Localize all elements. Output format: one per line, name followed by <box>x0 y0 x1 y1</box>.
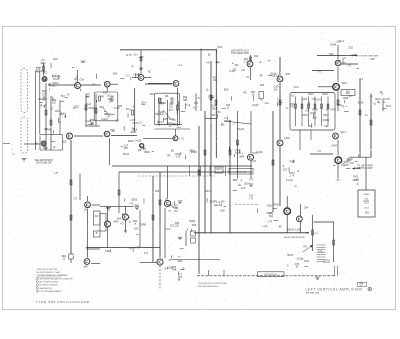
svg-text:R.11: R.11 <box>294 86 300 89</box>
svg-text:--6-: --6- <box>258 61 262 64</box>
svg-text:RQ: RQ <box>235 64 239 67</box>
svg-text:R-: R- <box>216 117 219 120</box>
svg-text:+C+: +C+ <box>133 53 138 56</box>
svg-text:INCORPORATED 1 OHM: INCORPORATED 1 OHM <box>37 271 60 274</box>
svg-text:2N2207: 2N2207 <box>341 165 350 167</box>
svg-text:J414: J414 <box>364 208 370 210</box>
svg-text:-Q32: -Q32 <box>310 112 316 115</box>
svg-text:CK: CK <box>116 120 120 123</box>
svg-text:AC POWER SOURCE: AC POWER SOURCE <box>40 281 60 284</box>
svg-text:VERT: VERT <box>364 194 370 196</box>
svg-text:K+D4: K+D4 <box>102 118 109 121</box>
svg-text:6D: 6D <box>171 149 174 152</box>
svg-text:5KC3: 5KC3 <box>287 254 294 257</box>
svg-text:KCQ: KCQ <box>133 122 138 125</box>
svg-text:D--: D-- <box>67 93 71 96</box>
svg-text:+1.2: +1.2 <box>125 76 130 78</box>
svg-text:K43C: K43C <box>257 151 263 154</box>
svg-text:+150: +150 <box>217 47 223 49</box>
svg-text:KR: KR <box>212 114 216 117</box>
svg-text:7.R: 7.R <box>311 98 315 101</box>
svg-text:1K: 1K <box>377 102 380 104</box>
svg-text:2+K: 2+K <box>265 102 270 105</box>
svg-text:--: -- <box>139 235 141 238</box>
svg-text:--Q: --Q <box>372 102 376 105</box>
svg-text:C404: C404 <box>331 146 337 148</box>
svg-text:SEE PARTS LIST: SEE PARTS LIST <box>231 50 250 53</box>
svg-text:5+Q3: 5+Q3 <box>135 140 142 143</box>
svg-text:Q.: Q. <box>237 143 240 146</box>
svg-text:NOTE BELOW: NOTE BELOW <box>36 163 52 165</box>
svg-text:GAIN SWITCH: GAIN SWITCH <box>40 287 53 290</box>
svg-text:2DC2: 2DC2 <box>128 140 135 143</box>
svg-text:C4Q: C4Q <box>267 204 272 207</box>
svg-text:C74: C74 <box>268 222 273 224</box>
svg-text:TRIG PICKOFF: TRIG PICKOFF <box>264 274 277 276</box>
svg-text:1K: 1K <box>134 224 137 226</box>
svg-text:++Q: ++Q <box>262 225 267 228</box>
svg-text:TO RIGHT VERT AMP: TO RIGHT VERT AMP <box>358 54 379 57</box>
svg-text:R66: R66 <box>192 225 197 227</box>
svg-text:D-QC: D-QC <box>49 84 55 87</box>
svg-text:206D: 206D <box>133 204 139 207</box>
svg-text:6K.: 6K. <box>129 247 133 250</box>
svg-text:.1.: .1. <box>276 98 279 101</box>
svg-text:5D2R: 5D2R <box>267 212 273 215</box>
svg-text:K.7C: K.7C <box>134 246 140 249</box>
svg-text:C90D: C90D <box>144 151 150 154</box>
svg-text:+557: +557 <box>163 118 169 121</box>
svg-text:PICKOFF: PICKOFF <box>323 262 330 264</box>
svg-text:C67: C67 <box>174 211 179 213</box>
svg-text:C+1: C+1 <box>211 104 216 107</box>
svg-text:KQ+: KQ+ <box>126 108 131 111</box>
svg-text:9D..: 9D.. <box>165 95 170 98</box>
svg-text:C88: C88 <box>318 252 323 254</box>
svg-text:R.02: R.02 <box>230 70 236 73</box>
svg-text:4.: 4. <box>174 269 176 272</box>
svg-text:+2-: +2- <box>161 113 165 116</box>
svg-text:6KR: 6KR <box>169 118 174 121</box>
svg-text:-Q.: -Q. <box>131 65 135 68</box>
svg-text:KDR8: KDR8 <box>140 224 147 227</box>
svg-text:+.: +. <box>326 125 328 128</box>
svg-text:Q.-+: Q.-+ <box>342 105 347 108</box>
svg-text:QQK: QQK <box>302 98 308 101</box>
svg-text:4C: 4C <box>50 107 53 110</box>
svg-text:D.: D. <box>60 113 63 116</box>
svg-text:C52: C52 <box>249 196 254 198</box>
svg-text:-5C: -5C <box>291 95 295 98</box>
svg-text:1K: 1K <box>109 102 112 104</box>
svg-text:0QQ1: 0QQ1 <box>189 220 196 223</box>
svg-text:6C: 6C <box>92 84 95 87</box>
svg-text:KC: KC <box>148 71 152 74</box>
svg-text:QR9.: QR9. <box>81 61 87 64</box>
svg-text:D85: D85 <box>113 74 118 76</box>
svg-text:2C3: 2C3 <box>170 225 175 228</box>
svg-text:+1.2: +1.2 <box>178 65 183 67</box>
svg-text:C98: C98 <box>155 191 160 193</box>
svg-text:T402: T402 <box>328 54 334 56</box>
svg-text:7+C6: 7+C6 <box>114 107 120 110</box>
svg-text:CD+: CD+ <box>80 78 85 81</box>
svg-text:R97: R97 <box>124 148 129 150</box>
svg-text:WITH SWP TRIG AND 4TH CHAN OFF: WITH SWP TRIG AND 4TH CHAN OFF <box>40 278 74 281</box>
svg-text:-C: -C <box>343 57 346 60</box>
svg-text:TRACE SEP: TRACE SEP <box>236 170 247 173</box>
svg-text:VOLTAGE READINGS OBTAINED: VOLTAGE READINGS OBTAINED <box>37 274 68 277</box>
svg-text:0-: 0- <box>169 259 171 262</box>
svg-text:6+C+: 6+C+ <box>52 74 58 77</box>
svg-text:C-: C- <box>106 207 109 210</box>
svg-text:DD2.: DD2. <box>74 106 80 109</box>
svg-text:10K: 10K <box>213 80 218 82</box>
svg-text:QRQ: QRQ <box>352 54 358 57</box>
svg-text:4726: 4726 <box>273 204 279 207</box>
svg-text:DC5: DC5 <box>43 71 48 74</box>
svg-text:Q84: Q84 <box>74 79 79 81</box>
svg-text:SEL: SEL <box>269 216 274 218</box>
svg-text:K28: K28 <box>220 210 225 213</box>
svg-text:-D3: -D3 <box>221 124 226 127</box>
svg-text:FOR SEMICOND: FOR SEMICOND <box>231 53 249 55</box>
svg-text:1K: 1K <box>252 95 255 97</box>
svg-text:-150: -150 <box>273 90 278 92</box>
svg-text:RK: RK <box>167 155 171 158</box>
svg-text:++K: ++K <box>205 61 210 64</box>
svg-text:.8DK: .8DK <box>232 179 238 182</box>
svg-text:C84: C84 <box>304 208 309 210</box>
svg-text:Q--: Q-- <box>182 268 186 271</box>
svg-text:K3+K: K3+K <box>133 73 139 76</box>
svg-text:DELAY LINE: DELAY LINE <box>287 229 301 232</box>
svg-text:Q-.: Q-. <box>206 89 210 92</box>
svg-text:R372: R372 <box>205 191 211 193</box>
svg-text:.1CD: .1CD <box>348 47 354 50</box>
svg-text:RKC+: RKC+ <box>157 121 164 124</box>
svg-text:76KR: 76KR <box>289 161 295 164</box>
svg-text:NO INPUT SIGNALS: NO INPUT SIGNALS <box>40 284 58 287</box>
svg-text:K+4: K+4 <box>340 40 345 43</box>
svg-text:DELAY LINE NETWORK: DELAY LINE NETWORK <box>284 236 306 239</box>
svg-text:BLW 1000 SEE NOTE 4: BLW 1000 SEE NOTE 4 <box>198 286 218 288</box>
svg-text:+7.5: +7.5 <box>179 139 184 141</box>
svg-text:-98Q: -98Q <box>40 62 45 65</box>
svg-text:0C: 0C <box>238 184 241 187</box>
svg-text:5K92: 5K92 <box>358 101 364 104</box>
svg-text:DRD: DRD <box>353 179 358 182</box>
svg-text:R401: R401 <box>308 94 314 96</box>
svg-text:8DK: 8DK <box>240 155 245 158</box>
svg-text:R.75: R.75 <box>127 54 133 57</box>
svg-text:.KCR: .KCR <box>384 98 390 101</box>
svg-text:C401: C401 <box>315 100 321 102</box>
svg-text:D7-9: D7-9 <box>386 105 392 108</box>
svg-text:Q5K2: Q5K2 <box>131 199 138 202</box>
svg-text:LEFT VERTICAL AMPLIFIER: LEFT VERTICAL AMPLIFIER <box>306 287 363 291</box>
svg-text:TYPE 556 OSCILLOSCOPE: TYPE 556 OSCILLOSCOPE <box>36 300 90 304</box>
svg-text:.D: .D <box>128 221 131 224</box>
svg-text:R370: R370 <box>216 169 222 171</box>
svg-text:QQ: QQ <box>62 140 66 143</box>
svg-text:C2C: C2C <box>166 228 171 231</box>
svg-text:C71: C71 <box>144 253 149 255</box>
svg-text:+150: +150 <box>138 57 144 59</box>
svg-text:D.: D. <box>193 106 196 109</box>
svg-text:.D: .D <box>297 170 300 173</box>
svg-text:R-: R- <box>40 105 43 108</box>
svg-text:Q64: Q64 <box>83 267 88 269</box>
svg-text:+150: +150 <box>369 59 375 61</box>
svg-text:1R: 1R <box>259 75 262 78</box>
svg-text:K2Q8: K2Q8 <box>167 266 174 269</box>
svg-text:+150: +150 <box>215 112 221 114</box>
svg-text:A/B MAR 1969: A/B MAR 1969 <box>306 292 320 295</box>
svg-text:K2Q.: K2Q. <box>304 260 310 263</box>
svg-text:+54: +54 <box>305 110 310 113</box>
svg-text:THIS CIRCUIT AT THE: THIS CIRCUIT AT THE <box>37 268 58 271</box>
svg-text:SIG: SIG <box>365 199 369 201</box>
svg-text:QR+D: QR+D <box>214 204 221 207</box>
svg-text:R408: R408 <box>330 110 336 112</box>
svg-text:8C: 8C <box>208 54 211 57</box>
svg-text:.4RR: .4RR <box>158 103 164 106</box>
svg-text:PLUG IN BLANK PANELS: PLUG IN BLANK PANELS <box>40 290 63 293</box>
svg-text:41RC: 41RC <box>88 107 94 110</box>
svg-text:Q404: Q404 <box>341 83 347 85</box>
svg-text:C1D: C1D <box>274 85 279 88</box>
svg-text:Q6DQ: Q6DQ <box>323 119 330 122</box>
svg-text:547: 547 <box>313 117 318 120</box>
svg-text:3.3K: 3.3K <box>176 157 181 159</box>
svg-text:KR: KR <box>100 96 104 99</box>
svg-text:C94: C94 <box>194 103 199 105</box>
svg-text:2.7K: 2.7K <box>290 176 295 178</box>
svg-text:7-: 7- <box>233 123 235 126</box>
svg-text:R407: R407 <box>323 115 329 117</box>
svg-text:Q+QK: Q+QK <box>297 258 304 261</box>
svg-text:52+1: 52+1 <box>141 101 147 104</box>
svg-text:391D: 391D <box>38 98 44 101</box>
svg-text:3K7: 3K7 <box>169 109 174 112</box>
svg-text:5K4D: 5K4D <box>191 151 197 154</box>
svg-text:R96: R96 <box>260 85 265 87</box>
svg-text:6C: 6C <box>172 206 175 209</box>
svg-text:R405: R405 <box>302 115 308 117</box>
svg-text:4-: 4- <box>232 63 234 66</box>
svg-text:+7C: +7C <box>43 104 48 107</box>
svg-text:.+D: .+D <box>120 223 124 226</box>
svg-text:KKD: KKD <box>105 250 110 253</box>
svg-text:1C7: 1C7 <box>283 168 288 171</box>
svg-text:Q94: Q94 <box>254 56 259 58</box>
svg-text:ADJ: ADJ <box>365 212 369 215</box>
svg-text:DQ+: DQ+ <box>244 182 250 185</box>
svg-text:* FOR 546 OSCILLOSCOPE SER: * FOR 546 OSCILLOSCOPE SER <box>198 283 227 285</box>
svg-text:Q95: Q95 <box>285 74 290 76</box>
svg-text:56Q: 56Q <box>224 89 229 92</box>
svg-text:6+3: 6+3 <box>241 187 246 190</box>
svg-text:Q384: Q384 <box>284 138 290 140</box>
svg-text:9K+D: 9K+D <box>123 153 129 156</box>
svg-text:7RCQ: 7RCQ <box>224 120 231 123</box>
svg-text:SEE IMPORTANT: SEE IMPORTANT <box>35 159 54 162</box>
svg-text:TO DL: TO DL <box>314 233 319 235</box>
svg-text:8K: 8K <box>44 128 47 131</box>
svg-text:2Q+R: 2Q+R <box>237 128 244 131</box>
svg-text:61+D: 61+D <box>85 103 91 106</box>
svg-text:K+CQ: K+CQ <box>286 179 293 182</box>
svg-text:R402: R402 <box>322 94 328 96</box>
svg-text:R92: R92 <box>150 94 155 96</box>
svg-text:-5.: -5. <box>132 105 135 108</box>
svg-text:Q74: Q74 <box>84 210 89 212</box>
svg-text:-..C: -..C <box>369 95 373 98</box>
svg-text:C2D6: C2D6 <box>354 167 361 170</box>
svg-text:OUT: OUT <box>364 203 369 205</box>
svg-text:Q344: Q344 <box>330 43 337 46</box>
svg-text:Q378: Q378 <box>250 161 256 163</box>
svg-text:R83: R83 <box>36 72 41 74</box>
svg-text:7D: 7D <box>165 198 168 201</box>
svg-text:DK: DK <box>132 128 136 131</box>
svg-text:DR.D: DR.D <box>347 158 353 161</box>
